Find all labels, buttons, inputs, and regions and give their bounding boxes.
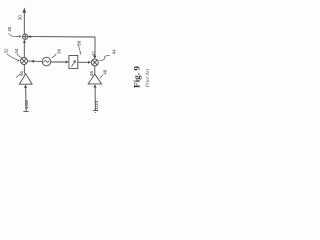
phase shifter symbol [72,61,76,67]
leader for label 34 [17,54,22,58]
summer plus [23,34,28,39]
mixer M2 [91,59,98,66]
svg-text:102: 102 [24,99,29,109]
leader for label 48 [100,75,103,79]
wire phase shifter to mixer M2 [78,61,89,63]
wire input into amplifier A1 [25,87,28,111]
svg-text:46: 46 [19,71,24,77]
phase shifter box U1 [69,56,78,69]
summer node N1 [23,34,28,39]
svg-text:30: 30 [18,15,23,21]
arrowhead into summer bottom [23,40,26,43]
svg-text:Fig. 9: Fig. 9 [133,66,142,88]
svg-text:48: 48 [103,69,108,75]
svg-text:38: 38 [76,40,81,46]
wire mixer M1 to amplifier A1 [23,65,25,74]
svg-text:46: 46 [89,71,94,77]
arrowhead into summer right [28,35,31,38]
svg-text:Prior Art: Prior Art [146,68,151,88]
svg-text:32: 32 [4,48,9,54]
leader for label 44 [99,55,109,60]
arrowhead into mixer M2 left [88,61,91,64]
svg-text:34: 34 [14,48,19,54]
svg-text:42: 42 [91,51,96,57]
input terminal bar left [24,110,29,112]
wire summer to mixer M2 top feed [28,37,95,57]
arrowhead into amplifier A2 base [94,84,97,87]
leader for label 46 [16,74,20,77]
oscillator sine [44,61,49,63]
mixer M2 cross [92,60,97,65]
arrowhead into mixer M1 right [31,60,34,63]
mixer M1 [21,58,28,65]
terminal dot right [95,112,96,113]
mixer M1 cross [22,59,27,64]
leader for label 40 [9,33,22,37]
wire oscillator to phase shifter [51,61,67,63]
svg-text:36: 36 [56,48,61,54]
arrowhead output top [23,8,27,13]
amplifier A1 [19,74,32,85]
wire output up from summer [23,12,25,34]
svg-text:44: 44 [111,49,116,55]
wire mixer M1 output up to summer [23,42,25,57]
leader for label 38 [78,45,81,55]
arrowhead down into mixer M2 top [93,56,96,59]
input terminal bar right [94,110,98,112]
arrowhead into amplifier A1 base [24,85,27,88]
wire input into amplifier A2 [94,87,96,111]
svg-text:104: 104 [94,100,99,110]
local oscillator OSC [42,57,51,66]
wire mixer M2 to amplifier A2 [94,66,96,74]
arrowhead into phase shifter left [66,61,69,64]
amplifier A2 [88,74,101,84]
wire oscillator to mixer M1 [28,60,43,62]
leader for label 32 [7,54,19,61]
leader for label 36 [52,54,56,58]
svg-text:40: 40 [7,26,12,32]
